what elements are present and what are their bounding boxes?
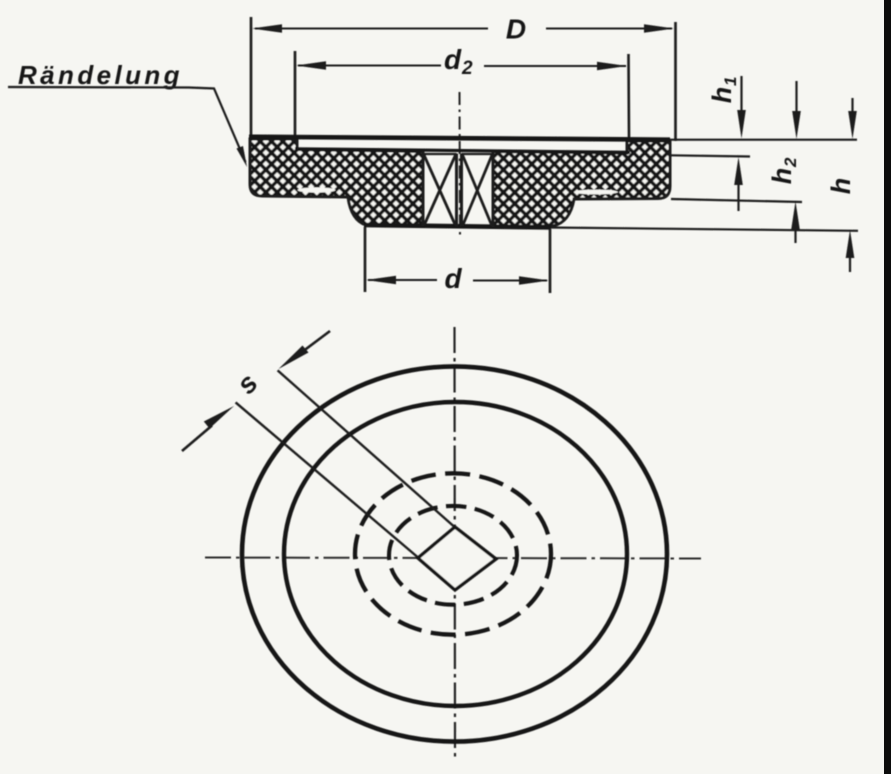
- svg-text:d: d: [444, 263, 462, 294]
- square hole box tops: [423, 153, 493, 155]
- dimension D line: [255, 28, 672, 30]
- dimension D extension lines: [251, 17, 676, 141]
- svg-text:D: D: [506, 14, 526, 45]
- s dimension line B: [236, 402, 418, 557]
- recess floor extension right: [670, 155, 750, 156]
- dimension d2 arrows: [296, 61, 326, 70]
- inner dashed circle: [389, 506, 517, 605]
- web bottom extension right: [671, 199, 802, 202]
- dimension d arrows: [366, 276, 396, 285]
- recess floor line: [295, 149, 630, 153]
- leader arrowhead: [237, 146, 248, 167]
- dimension h1 up arrow: [737, 183, 739, 211]
- dimension h down arrow: [851, 98, 853, 120]
- dimension d2 extension lines: [295, 51, 629, 140]
- s arrow at line B: [182, 426, 212, 452]
- svg-text:Rändelung: Rändelung: [18, 60, 183, 90]
- label h2: [767, 157, 800, 184]
- dimension d2 line: [298, 65, 626, 68]
- leader wire: [8, 87, 246, 162]
- label h: [826, 178, 856, 195]
- hatched body right (rim + web + hub half): [493, 141, 670, 227]
- square hole X diagonals right box: [463, 155, 493, 226]
- s arrow at line A: [300, 331, 330, 354]
- horizontal centerline: [205, 558, 701, 559]
- vertical centerline: [453, 327, 456, 758]
- center square (diamond): [418, 527, 496, 590]
- svg-text:d: d: [444, 44, 462, 75]
- outer circle D: [242, 366, 667, 741]
- label h1: [707, 77, 740, 104]
- centerline upper view: [459, 92, 462, 237]
- fillet highlight left: [298, 187, 336, 192]
- square hole wall right: [492, 152, 495, 228]
- fillet highlight right: [574, 190, 618, 195]
- top surface line: [249, 137, 670, 140]
- dimension h2 down arrow: [795, 81, 797, 120]
- dimension h2 up arrow: [794, 228, 796, 243]
- dimension h1 down arrow: [740, 76, 742, 120]
- svg-text:h: h: [707, 87, 737, 104]
- svg-text:1: 1: [721, 77, 740, 86]
- svg-text:2: 2: [781, 157, 800, 168]
- dimension d extension lines: [365, 227, 550, 293]
- s dimension line A: [278, 370, 454, 526]
- inner circle d2: [284, 402, 627, 706]
- square hole X diagonals left box: [424, 155, 456, 226]
- dimension D arrows: [252, 24, 282, 33]
- hatched body left (rim + web + hub half): [250, 139, 423, 226]
- label s: [230, 367, 263, 400]
- hub bottom extension right: [551, 228, 858, 231]
- dimension d line: [368, 279, 547, 282]
- svg-text:h: h: [767, 168, 797, 185]
- dimension h up arrow: [849, 256, 851, 272]
- top surface extension right: [670, 139, 857, 141]
- svg-text:2: 2: [461, 58, 473, 79]
- scan border right edge: [884, 0, 891, 774]
- square hole wall left: [422, 152, 425, 227]
- square hole center verticals: [457, 154, 462, 227]
- svg-text:s: s: [230, 367, 263, 400]
- svg-text:h: h: [826, 178, 856, 195]
- outer dashed circle: [355, 473, 551, 634]
- hub bottom line: [364, 225, 551, 228]
